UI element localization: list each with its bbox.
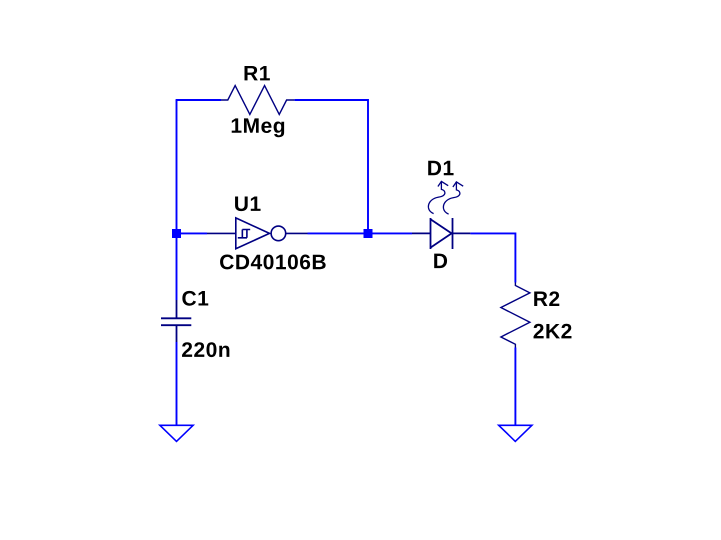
U1 hysteresis symbol	[238, 230, 250, 238]
pin: C1 top stub	[176, 300, 178, 318]
value 2K2	[534, 324, 572, 339]
wire: D1 cathode to right corner and down to R2	[470, 233, 515, 282]
capacitor C1	[161, 300, 191, 342]
label R2	[534, 291, 559, 306]
D1 anode bar / triangle left edge	[430, 218, 432, 249]
pin: U1 input stub	[207, 232, 236, 234]
wire: R2 bottom to right ground	[514, 348, 516, 426]
wire: right vertical from top corner down to node B	[367, 99, 369, 229]
U1 triangle body	[236, 218, 270, 249]
wire: U1 output to node B	[308, 232, 364, 234]
op-amp U1 (Schmitt inverter CD40106B)	[207, 218, 308, 249]
label U1	[235, 196, 261, 211]
D1 cathode bar	[452, 218, 454, 249]
pin: U1 output stub	[286, 232, 308, 234]
value 1Meg	[232, 118, 284, 137]
label C1	[182, 291, 208, 306]
wire: top horizontal from corner to R1 left lead	[176, 99, 221, 101]
wire: top horizontal from R1 right lead to right corner	[295, 99, 368, 101]
node A junction square	[172, 229, 181, 238]
wire: node A to U1 input	[181, 232, 207, 234]
wire: node B to D1 anode	[373, 232, 413, 234]
resistor R2	[501, 283, 530, 348]
diode D1 (LED)	[412, 218, 470, 249]
C1 bottom plate	[161, 324, 191, 326]
ground (left)	[160, 425, 193, 441]
wire: node A down to C1 top	[176, 238, 178, 300]
wire: C1 bottom to left ground	[176, 342, 178, 425]
U1 inversion bubble	[271, 226, 286, 241]
D1 triangle	[431, 219, 452, 247]
C1 top plate	[161, 317, 191, 319]
node B junction square	[364, 229, 373, 238]
D1 light emission arrow 2	[443, 182, 463, 214]
value D	[434, 254, 447, 268]
wire: left vertical from top corner down to node A	[176, 100, 178, 229]
pin: D1 anode stub	[412, 232, 431, 234]
pin: C1 bottom stub	[176, 326, 178, 342]
pin: D1 cathode stub	[453, 232, 471, 234]
ground (right)	[499, 425, 532, 441]
resistor R1	[221, 86, 295, 115]
value CD40106B	[220, 255, 326, 270]
value 220n	[182, 342, 229, 357]
label D1	[428, 161, 453, 175]
label R1	[245, 66, 270, 80]
D1 light emission arrow 1	[428, 181, 448, 213]
